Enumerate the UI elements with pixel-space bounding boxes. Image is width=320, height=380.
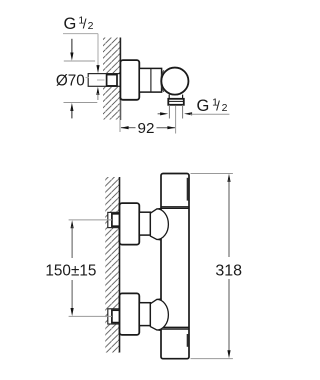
thermostat knob circle [161, 68, 188, 95]
union 1 dome [150, 209, 168, 240]
supply pipe G1/2 (top view) [88, 74, 120, 87]
outlet stem [168, 105, 170, 119]
318 extension line bottom [191, 358, 233, 360]
wall face extension line for 92 dim [119, 100, 121, 132]
Ø70 leader tick to pipe [86, 77, 90, 79]
Ø70 bottom arrow [70, 103, 73, 111]
union 2 flange [120, 293, 140, 335]
leader underline from G1/2 text [63, 33, 98, 35]
body cylinder (top view) [139, 68, 161, 92]
G1/2 bottom arrow (pipe bottom) [96, 87, 99, 95]
318 dimension line + arrows [227, 174, 230, 182]
outlet nut groove [168, 100, 184, 102]
flange / escutcheon (top view) [120, 60, 139, 100]
G1/2 outlet dimension arrows [158, 113, 162, 115]
body top joint lines [161, 206, 189, 208]
svg-text:2: 2 [222, 102, 228, 114]
top cap shading [187, 178, 189, 201]
svg-text:G: G [197, 97, 210, 115]
body divider line [150, 68, 152, 92]
outlet center extension line [175, 106, 177, 134]
svg-text:G: G [64, 15, 77, 33]
wall face line (bottom view) [119, 177, 121, 353]
wall face line (top view) [119, 38, 121, 121]
svg-text:/: / [216, 98, 220, 113]
Ø70 bottom extension line [64, 102, 98, 104]
150±15 extension line 2 [69, 315, 112, 317]
union 2 dome [150, 299, 168, 330]
knob rear arc [161, 70, 164, 92]
92 right arrow [167, 126, 175, 129]
union 2 pipe [108, 309, 120, 324]
body bottom joint lines [161, 327, 189, 329]
bottom cap shading [187, 334, 189, 347]
union 1 thread block [112, 214, 120, 226]
92 left arrow [121, 126, 129, 129]
leader vertical to pipe [97, 34, 99, 67]
svg-text:/: / [83, 16, 87, 31]
union 2 thread block [112, 310, 120, 322]
wall hatch (top view) [103, 38, 120, 120]
union 1 nut [139, 212, 150, 235]
svg-text:92: 92 [138, 120, 155, 137]
svg-text:318: 318 [215, 262, 242, 279]
union 1 flange [120, 203, 140, 245]
union 2 nut [139, 303, 150, 326]
union 1 pipe [108, 212, 120, 227]
outlet neck [168, 95, 170, 99]
Ø70 top extension line [64, 60, 95, 62]
outlet nut [168, 99, 184, 105]
leader arrowhead at pipe top [96, 65, 99, 73]
mixer body [161, 174, 189, 359]
92 dimension line [121, 127, 136, 129]
318 extension line top [191, 173, 233, 175]
pipe center dash [97, 79, 105, 81]
150±15 extension line 1 [69, 219, 112, 221]
svg-text:2: 2 [88, 20, 94, 32]
svg-text:Ø70: Ø70 [56, 72, 85, 89]
svg-text:150±15: 150±15 [45, 262, 96, 279]
150±15 dimension line + arrows [71, 220, 74, 228]
thread block (top view) [107, 75, 117, 86]
wall hatch (bottom view) [105, 177, 120, 353]
Ø70 top arrow [71, 39, 73, 55]
